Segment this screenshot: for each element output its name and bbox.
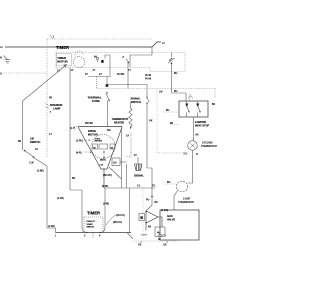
svg-text:A1: A1	[35, 148, 39, 151]
svg-text:1T: 1T	[49, 133, 52, 136]
svg-text:PUSH TO: PUSH TO	[87, 221, 96, 223]
svg-text:THERMOSTAT: THERMOSTAT	[201, 145, 218, 148]
svg-text:WH-BK: WH-BK	[85, 122, 93, 125]
svg-text:SV: SV	[138, 244, 142, 247]
svg-text:1T.: 1T.	[71, 69, 75, 72]
svg-text:2-1: 2-1	[137, 185, 141, 188]
svg-text:BU: BU	[167, 181, 171, 184]
svg-text:GAS: GAS	[167, 214, 173, 218]
svg-text:(4-GA): (4-GA)	[161, 209, 168, 212]
svg-text:C.W.: C.W.	[100, 165, 104, 167]
svg-text:BU: BU	[166, 109, 170, 112]
svg-text:TIMER: TIMER	[87, 211, 100, 216]
svg-text:AV: AV	[157, 232, 160, 235]
svg-text:MOTOR: MOTOR	[88, 133, 98, 137]
svg-text:G: G	[0, 73, 2, 76]
svg-text:PU-BK: PU-BK	[117, 73, 125, 76]
svg-text:4: 4	[99, 235, 101, 238]
svg-text:BK: BK	[212, 103, 216, 106]
svg-text:PU: PU	[146, 199, 150, 202]
svg-text:START: START	[87, 223, 94, 226]
svg-text:TIMER: TIMER	[56, 45, 69, 50]
svg-text:TD: TD	[152, 185, 155, 188]
svg-text:W-BK: W-BK	[102, 185, 109, 188]
svg-text:HEATER: HEATER	[114, 122, 124, 125]
svg-text:C.W: C.W	[29, 162, 34, 165]
svg-text:Ar: Ar	[158, 238, 161, 241]
svg-text:4M: 4M	[107, 129, 110, 132]
svg-text:R: R	[196, 153, 198, 156]
svg-text:SWITCH: SWITCH	[30, 140, 40, 144]
svg-text:THERMOSTAT: THERMOSTAT	[178, 201, 195, 204]
svg-text:2-WATER: 2-WATER	[195, 121, 206, 124]
svg-text:3: 3	[84, 235, 86, 238]
svg-text:(1-4B): (1-4B)	[48, 225, 55, 228]
svg-text:1: 1	[53, 36, 55, 39]
svg-text:SWITCH: SWITCH	[131, 100, 141, 104]
svg-text:FUSE: FUSE	[92, 99, 100, 103]
svg-text:(1-W): (1-W)	[103, 203, 109, 206]
svg-text:1M: 1M	[113, 162, 116, 165]
svg-text:LID: LID	[30, 137, 34, 141]
svg-text:SIGNAL: SIGNAL	[131, 96, 141, 100]
svg-text:8A: 8A	[94, 56, 97, 59]
svg-text:1A: 1A	[126, 135, 129, 138]
svg-text:1V: 1V	[134, 154, 137, 157]
svg-text:(1-1B): (1-1B)	[57, 197, 64, 200]
svg-text:(4B-CO): (4B-CO)	[113, 221, 122, 224]
svg-text:6A: 6A	[196, 134, 199, 137]
svg-text:(W-CO): (W-CO)	[117, 214, 125, 217]
svg-text:GA: GA	[163, 244, 167, 247]
svg-text:WINDING: WINDING	[95, 141, 103, 143]
svg-text:4A: 4A	[148, 226, 151, 229]
svg-text:(1-Y): (1-Y)	[70, 127, 76, 130]
svg-text:VALVE: VALVE	[167, 218, 176, 222]
svg-text:HEAT STOP: HEAT STOP	[195, 125, 209, 128]
svg-text:2-1: 2-1	[184, 153, 188, 156]
svg-text:DRIVE: DRIVE	[88, 129, 96, 133]
svg-text:BK: BK	[155, 201, 159, 204]
svg-text:BU: BU	[174, 90, 178, 93]
svg-text:PK: PK	[149, 120, 153, 123]
svg-text:Y: Y	[50, 111, 52, 114]
svg-text:2T: 2T	[93, 69, 96, 72]
svg-text:3T: 3T	[85, 73, 88, 76]
svg-text:(BK-PK): (BK-PK)	[103, 174, 112, 177]
svg-text:L1: L1	[162, 42, 165, 45]
svg-text:LM: LM	[159, 91, 162, 94]
svg-text:BU: BU	[174, 72, 178, 75]
svg-text:L1: L1	[0, 46, 3, 49]
svg-text:SIGNAL: SIGNAL	[134, 174, 144, 178]
svg-text:6: 6	[123, 56, 125, 59]
svg-text:BK: BK	[170, 122, 174, 125]
svg-text:(1-BK): (1-BK)	[37, 170, 44, 173]
svg-text:BK: BK	[18, 140, 22, 143]
svg-text:(1-PK): (1-PK)	[76, 140, 83, 143]
svg-text:INTERIOR: INTERIOR	[50, 103, 63, 107]
svg-text:SWITCH: SWITCH	[87, 227, 95, 229]
svg-text:(MAIN): (MAIN)	[100, 159, 106, 162]
svg-text:7T: 7T	[128, 69, 131, 72]
svg-text:N: N	[0, 57, 2, 60]
svg-text:PU-M: PU-M	[145, 78, 151, 81]
svg-text:(4-R): (4-R)	[76, 152, 82, 155]
svg-text:THERMOSTAT: THERMOSTAT	[112, 118, 129, 121]
svg-text:PK: PK	[49, 97, 53, 100]
svg-text:LAMP: LAMP	[53, 107, 61, 111]
svg-text:1: 1	[55, 235, 57, 238]
svg-text:BK: BK	[72, 177, 76, 180]
svg-text:4T: 4T	[99, 73, 102, 76]
svg-text:MOTOR: MOTOR	[57, 60, 67, 64]
